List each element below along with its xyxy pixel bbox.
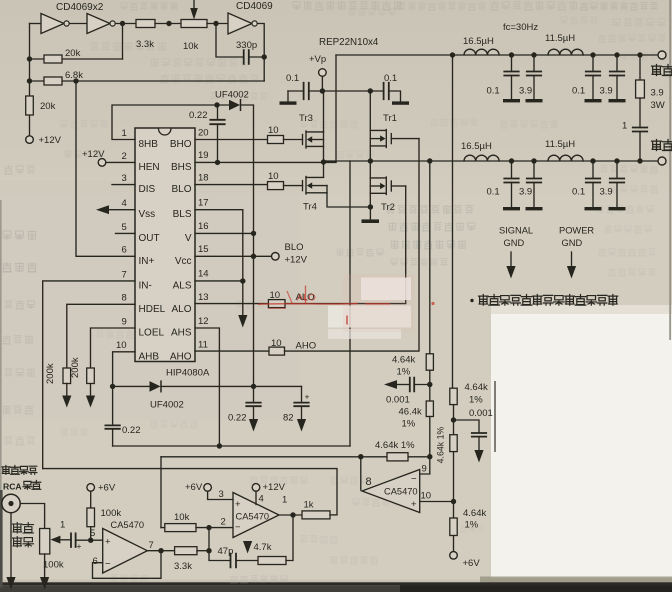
svg-text:BHS: BHS xyxy=(171,162,192,173)
capacitor 3.9 row2 xyxy=(616,161,618,178)
svg-text:3.9: 3.9 xyxy=(651,88,664,99)
wire pin13 ALO xyxy=(195,303,268,305)
wire opamp3 output line xyxy=(161,456,430,458)
wire BLO to Tr4 gate xyxy=(284,185,303,187)
wire IN- feedback loop xyxy=(43,281,135,469)
node fbA ref xyxy=(427,382,432,387)
wire pin11 AHO xyxy=(195,350,269,352)
wire osc feedback y81 to 6.8k xyxy=(30,80,265,82)
capacitor 0.1 row1 xyxy=(592,55,594,71)
svg-text:3.9: 3.9 xyxy=(600,187,613,198)
svg-text:3.9: 3.9 xyxy=(519,86,532,97)
potentiometer 100k xyxy=(40,529,50,555)
svg-text:11.5µH: 11.5µH xyxy=(545,139,575,150)
wire pin14 ALS xyxy=(195,280,243,282)
wire AHO to Tr1 gate xyxy=(285,139,420,352)
svg-text:10k: 10k xyxy=(183,41,199,52)
svg-text:3.9: 3.9 xyxy=(600,86,613,97)
wire left +12V rail xyxy=(29,24,31,136)
transistor Tr3 xyxy=(302,135,304,145)
svg-text:0.001: 0.001 xyxy=(469,408,493,419)
wire pin4 xyxy=(255,491,257,504)
node Tr1 source xyxy=(368,158,373,163)
wire pin8 HDEL xyxy=(67,304,135,368)
wire +Vp rail xyxy=(309,90,384,92)
svg-text:GND: GND xyxy=(504,238,525,248)
wire IN+ from 6.8k node xyxy=(76,81,135,256)
inverter U2A CD4069 xyxy=(41,14,64,34)
wire fbA mid xyxy=(429,370,431,401)
svg-text:1%: 1% xyxy=(402,419,416,430)
svg-text:1%: 1% xyxy=(469,395,483,406)
inverter U2C CD4069 xyxy=(228,13,252,34)
svg-text:20k: 20k xyxy=(40,101,56,112)
wire jack shell xyxy=(10,513,12,577)
ground arrow op2b xyxy=(243,541,252,554)
svg-text:BHO: BHO xyxy=(170,139,192,150)
transistor Tr4 xyxy=(302,181,304,191)
node rail 20k xyxy=(27,56,32,61)
wire 3.3k to 47p node xyxy=(197,550,209,552)
svg-text:1: 1 xyxy=(60,520,65,531)
svg-text:15: 15 xyxy=(198,244,209,255)
wire 3.3k to pot 10k xyxy=(155,23,181,25)
svg-text:4.64k: 4.64k xyxy=(463,508,486,519)
wire U2A out to U2B in xyxy=(69,23,87,25)
wire fbB mid xyxy=(453,405,455,435)
node U2C input xyxy=(213,21,218,26)
capacitor 47p branch xyxy=(209,528,231,561)
wire 1k to IN- line xyxy=(330,514,337,516)
wire jack to pot xyxy=(20,504,44,529)
wire U2B output drop xyxy=(122,24,124,60)
svg-text:16.5µH: 16.5µH xyxy=(461,141,492,152)
wire A-phase line xyxy=(324,160,663,162)
capacitor 3.9 row1 xyxy=(616,55,618,71)
capacitor 0.1 row2 xyxy=(592,161,594,178)
svg-text:5: 5 xyxy=(90,528,95,539)
svg-text:20k: 20k xyxy=(65,48,81,59)
node op3 out xyxy=(358,454,363,459)
resistor 4.64k bias xyxy=(450,518,457,536)
svg-text:IN+: IN+ xyxy=(139,256,155,267)
inductor 11.5uH row2 xyxy=(548,155,583,161)
svg-text:AHS: AHS xyxy=(171,328,192,339)
wire D2 cathode xyxy=(161,385,254,387)
svg-text:0.1: 0.1 xyxy=(572,187,585,198)
svg-text:Tr3: Tr3 xyxy=(299,113,313,124)
svg-text:0.1: 0.1 xyxy=(572,86,585,97)
svg-text:RCA: RCA xyxy=(3,482,22,492)
svg-text:10: 10 xyxy=(271,338,282,349)
svg-text:−: − xyxy=(235,522,241,533)
svg-text:ALO: ALO xyxy=(171,304,191,315)
svg-text:11: 11 xyxy=(198,340,208,351)
node pin10 xyxy=(451,499,456,504)
wire AHS riser xyxy=(349,161,351,446)
svg-text:AHO: AHO xyxy=(170,351,192,362)
node op2 out xyxy=(290,512,295,517)
label shuchu row2 xyxy=(652,140,662,151)
svg-text:46.4k: 46.4k xyxy=(399,407,422,418)
capacitor 1 zobel xyxy=(639,98,641,127)
svg-text:7: 7 xyxy=(122,269,127,280)
svg-text:+: + xyxy=(305,392,310,402)
wire inverter U2A input xyxy=(30,23,42,25)
node row1 x617 xyxy=(614,52,619,57)
terminal +12V op2 xyxy=(252,484,260,492)
node osc junction xyxy=(166,21,171,26)
resistor 10 BLO xyxy=(268,182,284,190)
resistor 6.8k xyxy=(44,77,62,85)
ground bar bridge xyxy=(369,207,371,219)
svg-text:CD4069x2: CD4069x2 xyxy=(56,2,104,13)
svg-text:+: + xyxy=(77,541,82,551)
svg-text:HDEL: HDEL xyxy=(139,304,166,315)
svg-text:+6V: +6V xyxy=(463,558,481,569)
resistor 20k to +12V xyxy=(26,96,34,115)
resistor 100k bias xyxy=(87,484,95,492)
op-amp U3B CA5470 xyxy=(362,470,420,513)
svg-text:0.1: 0.1 xyxy=(286,73,299,84)
svg-text:1: 1 xyxy=(122,128,127,139)
wire pin10 stub xyxy=(420,501,454,503)
wire output row1 xyxy=(336,54,658,56)
terminal +12V left xyxy=(26,136,34,144)
wire pot to U2C input xyxy=(207,23,228,25)
terminal BLO +12V xyxy=(272,252,280,260)
node V rail xyxy=(251,231,256,236)
svg-text:200k: 200k xyxy=(45,363,56,384)
svg-text:82: 82 xyxy=(283,413,294,424)
svg-text:+12V: +12V xyxy=(263,482,286,493)
svg-text:10: 10 xyxy=(268,125,279,136)
svg-text:0.22: 0.22 xyxy=(228,413,247,424)
node BHS phase xyxy=(321,159,326,164)
resistor 4.64k fb op3 xyxy=(387,453,408,461)
wire to 82 cap xyxy=(254,385,302,387)
pin3 DIS stub xyxy=(112,184,135,186)
inverter U2B CD4069 xyxy=(87,14,110,34)
resistor 3.3k xyxy=(136,20,155,28)
wire op2 output xyxy=(279,514,302,516)
svg-text:+: + xyxy=(105,537,111,548)
resistor 20k feedback xyxy=(30,58,123,60)
resistor 4.64k fbB xyxy=(450,388,457,404)
svg-text:0.1: 0.1 xyxy=(487,86,500,97)
svg-text:CA5470: CA5470 xyxy=(111,520,145,530)
svg-text:10k: 10k xyxy=(174,512,190,523)
svg-text:+: + xyxy=(235,499,241,510)
wire fbA to pin9 node xyxy=(429,417,431,457)
resistor 1k xyxy=(302,511,330,519)
wire 10k to pin2 xyxy=(161,527,233,529)
node Vp Tr3 xyxy=(320,88,325,93)
note bullet xyxy=(470,299,473,302)
wire pin16 V xyxy=(195,232,254,234)
node AHS drop junction xyxy=(217,443,222,448)
svg-text:16: 16 xyxy=(198,221,209,232)
node pin2 xyxy=(206,525,211,530)
capacitor 0.22 bypass xyxy=(253,386,255,402)
node Vcc bypass junction xyxy=(251,384,256,389)
node fbB ref xyxy=(451,417,456,422)
terminal +6V right xyxy=(453,536,455,552)
wire pin12 AHS drop xyxy=(195,328,219,446)
label level adjust cjk xyxy=(2,466,10,475)
svg-text:BLO: BLO xyxy=(285,242,304,253)
svg-text:Vcc: Vcc xyxy=(175,256,192,267)
svg-text:+6V: +6V xyxy=(98,483,116,494)
pot wiper arrow audio xyxy=(50,536,60,544)
svg-text:0.22: 0.22 xyxy=(122,425,141,436)
node row2 x593 xyxy=(590,158,595,163)
svg-text:1k: 1k xyxy=(304,500,314,511)
svg-text:10: 10 xyxy=(421,491,432,502)
node Vcc rail xyxy=(251,254,256,259)
svg-text:+: + xyxy=(411,499,417,510)
wire pin10 AHB xyxy=(113,352,135,387)
svg-text:2: 2 xyxy=(122,151,127,162)
svg-text:DIS: DIS xyxy=(139,184,156,195)
node row2 x534 xyxy=(531,158,536,163)
resistor 10 AHO xyxy=(269,347,285,355)
pin4 Vss arrow xyxy=(108,209,135,211)
ground arrow 200k LDEL xyxy=(90,384,92,396)
svg-text:SIGNAL: SIGNAL xyxy=(499,226,533,236)
resistor 10 BHO xyxy=(268,136,284,144)
svg-text:8HB: 8HB xyxy=(139,139,159,150)
node bridge ground xyxy=(368,204,373,209)
wire 4.7k to op2 out xyxy=(286,515,293,561)
svg-text:17: 17 xyxy=(198,198,209,209)
capacitor 330p xyxy=(216,24,244,58)
pin5 OUT stub xyxy=(116,232,136,234)
wire B-phase riser xyxy=(324,55,337,162)
svg-text:4: 4 xyxy=(259,494,264,505)
node BLS-ALS xyxy=(240,278,245,283)
op-amp U1 HIP4080A body xyxy=(135,128,195,362)
node row1 x593 xyxy=(590,52,595,57)
wire B-phase fb drop xyxy=(452,55,454,388)
wire A-phase fb riser xyxy=(429,161,431,354)
svg-text:3.3k: 3.3k xyxy=(174,561,192,572)
capacitor 0.1 right decoupling xyxy=(384,83,389,99)
svg-text:UF4002: UF4002 xyxy=(215,90,249,101)
transistor Tr1 xyxy=(390,134,392,144)
svg-text:3: 3 xyxy=(122,173,127,184)
wire riser lineB to 10k xyxy=(160,457,162,528)
RCA jack xyxy=(2,494,20,512)
svg-text:+12V: +12V xyxy=(39,135,62,146)
capacitor 0.1 left decoupling xyxy=(288,90,304,92)
pot wiper arrow xyxy=(193,0,195,8)
svg-text:9: 9 xyxy=(122,316,127,327)
node pin5 xyxy=(88,538,93,543)
svg-text:OUT: OUT xyxy=(139,233,160,244)
resistor 200k LDEL xyxy=(87,368,95,384)
svg-text:12: 12 xyxy=(198,316,209,327)
red tick xyxy=(346,316,348,325)
svg-text:Tr1: Tr1 xyxy=(383,113,397,124)
wire AHS lower run xyxy=(113,445,350,447)
wire op1 feedback xyxy=(93,551,162,579)
svg-text:CA5470: CA5470 xyxy=(384,487,418,497)
node row2 x617 xyxy=(614,158,619,163)
svg-text:8: 8 xyxy=(122,293,127,304)
wire pin18 BLO xyxy=(195,184,268,186)
svg-text:0.22: 0.22 xyxy=(189,110,208,121)
node row1 x511.5 xyxy=(509,52,514,57)
svg-text:3W: 3W xyxy=(651,100,665,111)
wire pin20 BHO xyxy=(195,139,268,141)
wire fbB to pin10 xyxy=(453,452,455,518)
svg-text:1%: 1% xyxy=(397,367,411,378)
resistor 3.9 3W xyxy=(639,55,641,80)
svg-text:+12V: +12V xyxy=(82,149,105,160)
wire pin19 BHS xyxy=(195,161,336,163)
node U2B output junction xyxy=(120,21,125,26)
arrow signal gnd xyxy=(510,252,512,266)
node row2 x511.5 xyxy=(509,158,514,163)
svg-text:10: 10 xyxy=(268,171,279,182)
svg-text:4.64k: 4.64k xyxy=(392,355,415,366)
transistor Tr2 xyxy=(390,181,392,191)
svg-text:100k: 100k xyxy=(43,560,64,571)
svg-text:20: 20 xyxy=(198,127,209,138)
diode D1 UF4002 xyxy=(229,100,240,111)
label audio input cjk xyxy=(13,523,22,534)
resistor 200k HDEL xyxy=(63,368,71,384)
capacitor 3.9 row1 xyxy=(533,55,535,71)
svg-text:7: 7 xyxy=(149,540,154,551)
svg-text:CA5470: CA5470 xyxy=(236,512,270,522)
svg-text:BLS: BLS xyxy=(173,209,192,220)
capacitor 0.1 row2 xyxy=(511,161,513,178)
svg-text:5: 5 xyxy=(122,222,127,233)
wire pin17 BLS xyxy=(195,210,243,281)
svg-text:1: 1 xyxy=(622,121,627,132)
wire ALO to Tr2 gate xyxy=(285,186,406,304)
svg-text:10: 10 xyxy=(270,290,281,301)
wire pin3 xyxy=(208,491,233,499)
capacitor 3.9 row2 xyxy=(533,161,535,178)
node row1 tap xyxy=(450,52,455,57)
node pin9 xyxy=(427,454,432,459)
svg-text:Tr2: Tr2 xyxy=(381,202,395,213)
svg-text:16.5µH: 16.5µH xyxy=(463,36,494,47)
wire pot bottom xyxy=(44,554,46,577)
resistor 3.3k op1 xyxy=(175,547,197,555)
svg-text:V: V xyxy=(185,233,192,244)
node A-phase fb tap xyxy=(427,158,432,163)
ground arrow pot xyxy=(40,577,49,590)
node AHB junction xyxy=(110,384,115,389)
potentiometer 10k xyxy=(181,20,207,28)
wire op3 output riser xyxy=(360,457,362,490)
op-amp U1a CA5470 xyxy=(103,529,148,574)
svg-text:0.1: 0.1 xyxy=(384,73,397,84)
svg-text:18: 18 xyxy=(198,172,209,183)
wire pin1 BHB bootstrap net xyxy=(112,105,229,140)
resistor 10k op2 xyxy=(165,524,196,532)
node IN+ tap xyxy=(73,78,78,83)
inductor 16.5uH row2 xyxy=(464,155,499,161)
terminal output row2 xyxy=(658,157,666,165)
node zobel row2 xyxy=(637,158,642,163)
capacitor 0.1 row1 xyxy=(511,55,513,71)
svg-text:4.7k: 4.7k xyxy=(254,542,272,553)
svg-text:UF4002: UF4002 xyxy=(150,400,184,411)
svg-text:GND: GND xyxy=(562,238,583,248)
wire U2B out to R 3.3k xyxy=(115,23,136,25)
svg-text:LOEL: LOEL xyxy=(139,328,165,339)
svg-text:3: 3 xyxy=(219,489,224,500)
wire IN- return xyxy=(43,469,337,514)
wire D1 cathode to Vcc rail xyxy=(241,105,254,386)
svg-text:1%: 1% xyxy=(465,520,479,531)
svg-text:ALS: ALS xyxy=(173,280,192,291)
svg-text:14: 14 xyxy=(198,269,209,280)
svg-text:POWER: POWER xyxy=(559,226,594,236)
svg-text:ALO: ALO xyxy=(297,293,316,304)
svg-text:REP22N10x4: REP22N10x4 xyxy=(319,37,379,48)
svg-text:200k: 200k xyxy=(70,357,81,378)
svg-text:−: − xyxy=(105,559,111,570)
svg-text:Tr4: Tr4 xyxy=(303,202,317,213)
svg-text:4.64k 1%: 4.64k 1% xyxy=(375,440,415,451)
svg-text:+12V: +12V xyxy=(285,255,308,266)
node zobel row1 xyxy=(637,52,642,57)
op-amp U2 CA5470 xyxy=(233,493,279,538)
node bootstrap B on BHS xyxy=(215,160,220,165)
svg-text:+6V: +6V xyxy=(185,482,203,493)
svg-text:HIP4080A: HIP4080A xyxy=(166,368,210,379)
node op1 out xyxy=(158,548,163,553)
node diode junction top xyxy=(214,102,219,107)
resistor 4.7k xyxy=(236,560,258,562)
capacitor 0.001 fbB xyxy=(454,420,480,433)
svg-text:4.64k 1%: 4.64k 1% xyxy=(436,426,446,463)
wire pin9 stub xyxy=(420,457,430,474)
diode D2 UF4002 xyxy=(113,385,150,387)
wire pin9 LDEL xyxy=(91,328,136,368)
terminal +6V op2 xyxy=(204,484,212,492)
svg-text:8: 8 xyxy=(366,476,372,488)
svg-text:6: 6 xyxy=(122,245,127,256)
svg-text:Vss: Vss xyxy=(139,209,156,220)
svg-text:10: 10 xyxy=(116,340,127,351)
node row1 x534 xyxy=(531,52,536,57)
svg-text:+Vp: +Vp xyxy=(309,54,326,65)
wire U2C output down xyxy=(257,24,264,82)
node 330p junction xyxy=(262,54,267,59)
svg-text:13: 13 xyxy=(198,292,209,303)
svg-text:0.1: 0.1 xyxy=(487,187,500,198)
svg-text:AHB: AHB xyxy=(139,351,160,362)
svg-text:AHO: AHO xyxy=(296,341,317,352)
svg-text:3.3k: 3.3k xyxy=(136,39,154,50)
resistor 4.64k fbB2 xyxy=(450,435,457,452)
terminal output row1 xyxy=(658,51,666,59)
svg-text:19: 19 xyxy=(198,150,209,161)
svg-text:3.9: 3.9 xyxy=(519,187,532,198)
inductor 16.5uH row1 xyxy=(464,49,499,55)
capacitor 82 electrolytic xyxy=(301,386,303,402)
ground arrow BLS/ALS xyxy=(242,281,244,315)
svg-text:fc=30Hz: fc=30Hz xyxy=(503,22,538,33)
red trace ALO wire xyxy=(258,302,390,305)
